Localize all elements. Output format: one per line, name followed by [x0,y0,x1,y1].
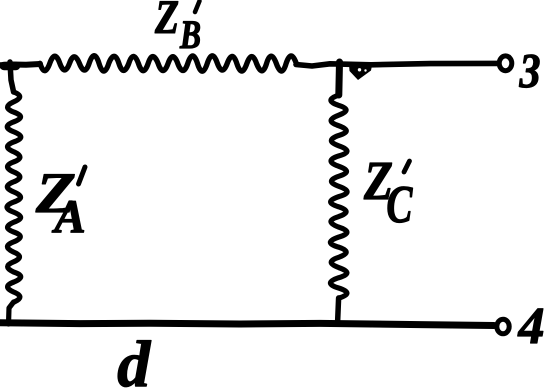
resistor Z'B (series impedance, zigzag) [40,56,296,72]
wire: left vertical from top wire down to Z'A [10,62,14,92]
resistor Z'A (left shunt impedance, zigzag) [7,92,21,302]
svg-text:B: B [179,12,201,57]
node: junction of left branch with top wire [4,62,16,71]
wire: top segment from Z'B to terminal 3 [296,63,497,66]
svg-text:3: 3 [519,43,541,98]
svg-text:Z: Z [154,0,179,44]
wire: Z'C vertical from top wire junction [335,62,343,95]
wire: bottom rail from left edge to terminal 4 [0,323,494,326]
wire: left vertical from Z'A to bottom wire [9,302,14,324]
svg-text:d: d [117,328,151,388]
resistor Z'C (right shunt impedance, zigzag) [330,95,347,298]
svg-text:4: 4 [518,298,545,355]
wire: Z'C vertical down to bottom wire [338,298,339,322]
label Z'A : prime mark [79,167,86,184]
label Z'B : prime mark [195,1,200,12]
svg-text:C: C [386,176,412,234]
svg-text:A: A [51,191,85,243]
node: ink blob at junction of Z'C with top wire [349,64,372,80]
wire: top-left segment from node 1 side to resistor Z'B [0,64,40,65]
terminal 3 (open circle) [499,56,512,71]
label Z'C : prime mark [404,161,410,172]
terminal 4 (open circle) [497,319,509,334]
